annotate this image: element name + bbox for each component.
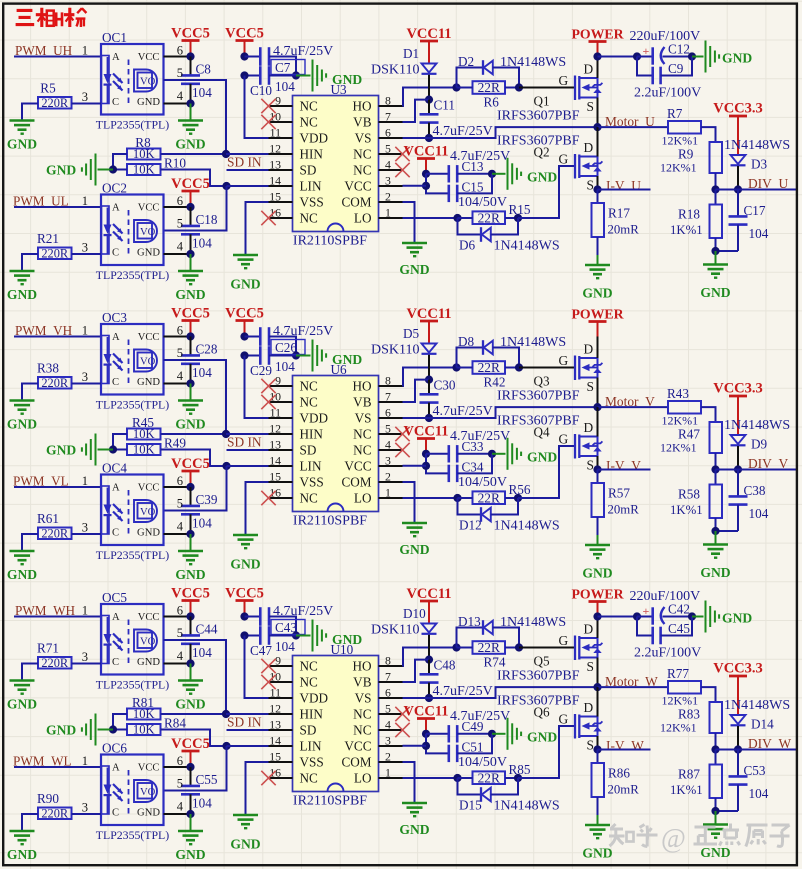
svg-text:GND: GND: [230, 837, 260, 852]
junction: [186, 763, 194, 771]
svg-text:R47: R47: [678, 427, 700, 442]
svg-text:GND: GND: [175, 697, 205, 712]
junction: [186, 52, 194, 60]
svg-text:NC: NC: [300, 659, 319, 674]
lead D10: [428, 635, 430, 660]
svg-text:1: 1: [82, 194, 88, 208]
svg-text:GND: GND: [175, 137, 205, 152]
capacitor C17: [729, 190, 748, 252]
pin 2 COM of U6: [341, 470, 402, 490]
optocoupler OC3: [101, 324, 164, 395]
svg-text:OC5: OC5: [102, 590, 127, 605]
resistor R58: [710, 470, 723, 532]
svg-text:104: 104: [192, 85, 212, 100]
svg-text:IRFS3607PBF: IRFS3607PBF: [497, 669, 580, 684]
junction: [734, 745, 742, 753]
svg-text:TLP2355(TPL): TLP2355(TPL): [96, 398, 169, 412]
svg-text:NC: NC: [353, 147, 372, 162]
svg-text:R58: R58: [678, 487, 700, 502]
svg-text:G: G: [559, 712, 569, 727]
svg-text:11: 11: [270, 126, 281, 140]
svg-text:VCC5: VCC5: [171, 176, 210, 192]
junction: [488, 170, 496, 178]
no-connect X: [261, 379, 275, 393]
svg-text:C17: C17: [744, 203, 766, 218]
pin 13 SD of U6: [269, 438, 317, 458]
no-connect X: [261, 659, 275, 673]
svg-text:POWER: POWER: [571, 27, 624, 42]
resistor R90: [38, 806, 72, 820]
wire: [161, 450, 227, 467]
svg-text:C: C: [112, 377, 119, 388]
lead D9: [737, 446, 739, 470]
power symbol VCC5: [182, 321, 200, 337]
svg-text:GND: GND: [137, 808, 160, 819]
power symbol VCC11: [420, 601, 438, 624]
svg-text:DSK110: DSK110: [371, 63, 420, 78]
gnd lead: [492, 733, 506, 735]
resistor R9: [710, 142, 723, 173]
resistor R47: [710, 422, 723, 453]
diode D2: [483, 60, 493, 75]
wire: [403, 660, 430, 682]
junction: [425, 134, 433, 142]
svg-text:1: 1: [82, 44, 88, 58]
junction: [240, 71, 248, 79]
ground: [703, 545, 728, 558]
no-connect X: [261, 491, 275, 505]
svg-text:16: 16: [269, 206, 281, 220]
svg-text:4: 4: [385, 438, 391, 452]
svg-text:104/50V: 104/50V: [458, 475, 507, 490]
svg-text:TLP2355(TPL): TLP2355(TPL): [96, 268, 169, 282]
pin 2 COM of U10: [341, 750, 402, 770]
transistor Q4: [575, 434, 602, 459]
svg-text:U3: U3: [331, 82, 348, 97]
resistor R87: [710, 750, 723, 812]
svg-text:IRFS3607PBF: IRFS3607PBF: [497, 389, 580, 404]
svg-text:C9: C9: [668, 61, 684, 76]
svg-text:C55: C55: [196, 772, 218, 787]
junction: [186, 530, 194, 538]
wire: [161, 433, 227, 435]
svg-text:6: 6: [177, 754, 183, 768]
pin 13 SD of U3: [269, 158, 317, 178]
gnd lead: [98, 169, 114, 171]
svg-text:C45: C45: [668, 621, 690, 636]
svg-text:1: 1: [82, 754, 88, 768]
ground: [313, 340, 327, 372]
wire: [598, 56, 638, 58]
junction: [711, 745, 719, 753]
resistor R7: [668, 121, 701, 134]
svg-text:7: 7: [385, 110, 391, 124]
svg-text:R42: R42: [484, 375, 506, 390]
junction: [422, 170, 430, 178]
pin 5 wire to HIN: [164, 360, 227, 434]
svg-text:1N4148WS: 1N4148WS: [724, 418, 790, 433]
ground: [508, 718, 522, 750]
svg-text:VCC5: VCC5: [171, 736, 210, 752]
wire: [269, 75, 296, 77]
wire: [22, 814, 38, 831]
ground: [313, 60, 327, 92]
svg-text:VCC11: VCC11: [406, 586, 451, 602]
pin 6 wire: [164, 56, 191, 58]
pin 16 NC of U6: [269, 486, 319, 506]
wire: [715, 453, 717, 470]
svg-text:4: 4: [177, 369, 184, 383]
wire: [458, 497, 473, 499]
svg-text:VO: VO: [140, 637, 156, 648]
wire: [701, 127, 716, 142]
transistor Q3: [575, 356, 602, 381]
svg-text:I-V U: I-V U: [606, 178, 641, 193]
pin 12 HIN of U10: [269, 702, 324, 722]
wire: [72, 533, 102, 535]
svg-text:D: D: [584, 700, 594, 715]
ground: [178, 831, 203, 844]
svg-text:C7: C7: [275, 60, 291, 75]
ground: [82, 154, 96, 186]
svg-text:22R: 22R: [478, 640, 500, 655]
svg-text:R38: R38: [37, 360, 59, 375]
svg-text:14: 14: [269, 454, 281, 468]
wire: [701, 407, 716, 422]
svg-text:VCC11: VCC11: [406, 306, 451, 322]
drain lead Q3: [597, 337, 599, 359]
junction: [711, 185, 719, 193]
capacitor C13: [449, 165, 457, 182]
title 三相H桥: [16, 8, 87, 27]
svg-text:12K%1: 12K%1: [660, 721, 697, 735]
diode D12: [481, 507, 491, 522]
capacitor C12 (polarized): [643, 44, 665, 65]
wire: [226, 713, 293, 715]
no-connect X: [395, 443, 409, 457]
wire: [457, 734, 492, 754]
svg-text:GND: GND: [582, 566, 612, 581]
no-connect X: [261, 115, 275, 129]
wire: [426, 454, 449, 474]
wire: [403, 687, 598, 698]
junction: [109, 445, 117, 453]
svg-text:VCC: VCC: [138, 203, 160, 214]
capacitor C34: [449, 465, 457, 482]
svg-text:C: C: [112, 248, 119, 259]
svg-text:G: G: [559, 353, 569, 368]
svg-text:VCC5: VCC5: [225, 306, 264, 322]
wire: [246, 202, 269, 255]
pin 5 NC of U6: [353, 422, 402, 442]
pin 6 wire: [164, 486, 191, 488]
junction: [688, 52, 696, 60]
svg-text:A: A: [112, 332, 120, 343]
junction: [425, 414, 433, 422]
svg-text:104/50V: 104/50V: [458, 755, 507, 770]
svg-text:HO: HO: [352, 99, 371, 114]
pin 7 VB of U6: [353, 390, 402, 410]
wire: [426, 453, 449, 455]
ground: [313, 620, 327, 652]
svg-text:D: D: [584, 342, 594, 357]
drain lead Q2: [597, 127, 599, 156]
svg-text:10K: 10K: [133, 722, 155, 736]
svg-text:C49: C49: [462, 719, 484, 734]
svg-text:VO: VO: [140, 787, 156, 798]
junction: [515, 363, 523, 371]
ground: [233, 535, 258, 548]
junction: [240, 351, 248, 359]
svg-text:GND: GND: [722, 611, 752, 626]
junction: [593, 612, 601, 620]
svg-text:VCC: VCC: [138, 763, 160, 774]
pin labels Q5: [559, 622, 594, 675]
power symbol VCC5: [236, 601, 254, 617]
wire: [457, 453, 492, 455]
svg-text:R77: R77: [667, 666, 689, 681]
wire: [22, 384, 38, 401]
svg-text:R74: R74: [484, 655, 506, 670]
source lead Q3: [597, 378, 599, 408]
op-amp driver IC U3 IR2110SPBF body: [293, 96, 379, 232]
wire: [663, 616, 693, 618]
no-connect X: [395, 163, 409, 177]
pin 12 HIN of U3: [269, 142, 324, 162]
gnd lead: [692, 56, 704, 58]
pin 6 wire: [164, 336, 191, 338]
svg-text:VCC3.3: VCC3.3: [713, 101, 763, 117]
gnd lead: [492, 173, 506, 175]
svg-text:Q5: Q5: [534, 654, 551, 669]
power symbol VCC5: [182, 471, 200, 487]
svg-text:VCC11: VCC11: [403, 144, 448, 160]
svg-text:VCC: VCC: [138, 612, 160, 623]
capacitor C33: [449, 445, 457, 462]
svg-text:C: C: [112, 528, 119, 539]
pin 14 LIN of U10: [269, 734, 322, 754]
svg-text:S: S: [587, 178, 594, 193]
junction: [488, 450, 496, 458]
svg-text:9: 9: [275, 94, 281, 108]
svg-text:G: G: [559, 633, 569, 648]
junction: [593, 745, 601, 753]
resistor R57: [592, 470, 605, 546]
svg-text:NC: NC: [353, 163, 372, 178]
power symbol VCC5: [182, 751, 200, 767]
pin 5 wire to HIN: [164, 80, 227, 154]
svg-text:D5: D5: [403, 326, 420, 341]
wire: [403, 185, 427, 187]
svg-text:D12: D12: [459, 518, 482, 533]
wire: [22, 534, 38, 551]
svg-text:2: 2: [385, 750, 391, 764]
svg-text:OC3: OC3: [102, 310, 127, 325]
svg-text:HIN: HIN: [300, 707, 324, 722]
capacitor C38: [729, 470, 748, 532]
svg-text:R45: R45: [132, 415, 154, 430]
wire: [246, 762, 269, 815]
svg-text:VCC5: VCC5: [225, 586, 264, 602]
svg-text:+: +: [643, 44, 650, 58]
pin 8 HO of U10: [352, 654, 402, 674]
capacitor C29: [260, 346, 269, 365]
source lead Q5: [597, 658, 599, 688]
svg-text:NC: NC: [300, 771, 319, 786]
capacitor C9: [653, 67, 661, 85]
svg-text:D15: D15: [459, 798, 482, 813]
resistor R18: [710, 190, 723, 252]
optocoupler OC4: [101, 475, 164, 546]
resistor R43: [668, 401, 701, 414]
junction: [240, 52, 248, 60]
svg-text:5: 5: [385, 422, 391, 436]
svg-text:VCC: VCC: [344, 739, 371, 754]
wire: [661, 617, 692, 636]
svg-text:NC: NC: [353, 427, 372, 442]
junction: [453, 494, 461, 502]
wire: [598, 189, 651, 191]
svg-text:NC: NC: [300, 395, 319, 410]
capacitor C42 (polarized): [643, 604, 665, 625]
diode D8: [483, 340, 493, 355]
capacitor C7: [260, 47, 269, 66]
pin 5 NC of U3: [353, 142, 402, 162]
wire: [505, 647, 519, 649]
svg-text:R90: R90: [37, 791, 59, 806]
svg-text:NC: NC: [353, 723, 372, 738]
ground: [178, 401, 203, 414]
svg-text:SD IN: SD IN: [227, 435, 262, 450]
wire: [457, 454, 492, 474]
svg-text:6: 6: [177, 604, 183, 618]
svg-text:7: 7: [385, 670, 391, 684]
junction: [593, 185, 601, 193]
junction: [633, 612, 641, 620]
junction: [222, 742, 230, 750]
pin 10 NC of U6: [269, 390, 319, 410]
svg-text:12K%1: 12K%1: [662, 694, 699, 708]
pin 4 wire: [164, 383, 191, 385]
wire: [72, 383, 102, 385]
drain lead Q5: [597, 617, 599, 639]
wire: [598, 406, 669, 408]
svg-text:220R: 220R: [41, 246, 69, 260]
junction: [240, 631, 248, 639]
wire: [457, 174, 492, 194]
svg-text:2.2uF/100V: 2.2uF/100V: [634, 86, 701, 101]
capacitor C11: [420, 100, 439, 138]
wire: [403, 88, 457, 107]
junction: [593, 403, 601, 411]
wire: [716, 189, 798, 191]
pin 16 NC of U3: [269, 206, 319, 226]
resistor R83: [710, 702, 723, 733]
svg-text:+: +: [643, 604, 650, 618]
svg-text:GND: GND: [700, 565, 730, 580]
svg-text:C44: C44: [196, 622, 218, 637]
svg-text:LO: LO: [354, 771, 372, 786]
wire: [246, 482, 269, 535]
svg-text:GND: GND: [175, 847, 205, 862]
svg-text:C18: C18: [196, 212, 218, 227]
svg-text:LIN: LIN: [300, 739, 322, 754]
svg-text:C34: C34: [462, 460, 484, 475]
svg-text:GND: GND: [399, 542, 429, 557]
svg-text:NC: NC: [300, 491, 319, 506]
svg-text:14: 14: [269, 174, 281, 188]
wire: [491, 498, 518, 515]
wire: [227, 185, 293, 187]
svg-text:R7: R7: [667, 106, 683, 121]
label C7 (boxed): [271, 60, 305, 76]
power symbol VCC3.3: [729, 396, 747, 435]
wire: [22, 254, 38, 271]
wire: [245, 616, 261, 618]
lead D14: [737, 726, 739, 750]
svg-text:5: 5: [177, 66, 183, 80]
svg-text:VO: VO: [140, 77, 156, 88]
svg-text:R81: R81: [132, 695, 154, 710]
wire: [457, 87, 473, 89]
wire: [245, 356, 269, 419]
wire: [637, 56, 652, 58]
gnd stem: [190, 664, 192, 681]
svg-text:COM: COM: [341, 195, 371, 210]
svg-text:C43: C43: [275, 620, 297, 635]
svg-text:16: 16: [269, 766, 281, 780]
svg-text:GND: GND: [7, 137, 37, 152]
svg-text:22R: 22R: [478, 770, 500, 785]
junction: [688, 612, 696, 620]
svg-text:S: S: [587, 458, 594, 473]
capacitor C43: [260, 607, 269, 626]
svg-text:C10: C10: [250, 83, 272, 98]
gnd stem: [597, 815, 599, 825]
svg-text:GND: GND: [46, 443, 76, 458]
svg-text:GND: GND: [175, 287, 205, 302]
svg-text:C30: C30: [434, 378, 456, 393]
svg-text:C: C: [112, 97, 119, 108]
svg-text:HO: HO: [352, 379, 371, 394]
ground: [703, 825, 728, 838]
lead D5: [428, 355, 430, 380]
junction: [711, 247, 719, 255]
gate wire: [519, 367, 575, 369]
svg-text:NC: NC: [300, 115, 319, 130]
svg-text:TLP2355(TPL): TLP2355(TPL): [96, 548, 169, 562]
optocoupler OC5: [101, 604, 164, 675]
svg-text:R6: R6: [484, 95, 500, 110]
ground: [10, 551, 35, 564]
wire: [598, 749, 651, 751]
svg-text:NC: NC: [300, 379, 319, 394]
svg-text:104: 104: [192, 796, 212, 811]
resistor R6: [473, 80, 506, 95]
pin 15 VSS of U10: [269, 750, 324, 770]
svg-text:1N4148WS: 1N4148WS: [724, 138, 790, 153]
wire: [14, 486, 101, 488]
svg-text:VS: VS: [355, 131, 372, 146]
wire: [161, 153, 227, 155]
svg-text:20mR: 20mR: [608, 223, 640, 237]
svg-text:IRFS3607PBF: IRFS3607PBF: [497, 694, 580, 709]
wire: [245, 336, 261, 338]
svg-text:VB: VB: [353, 115, 372, 130]
resistor R85: [473, 770, 506, 785]
svg-text:NC: NC: [300, 99, 319, 114]
svg-text:GND: GND: [46, 163, 76, 178]
